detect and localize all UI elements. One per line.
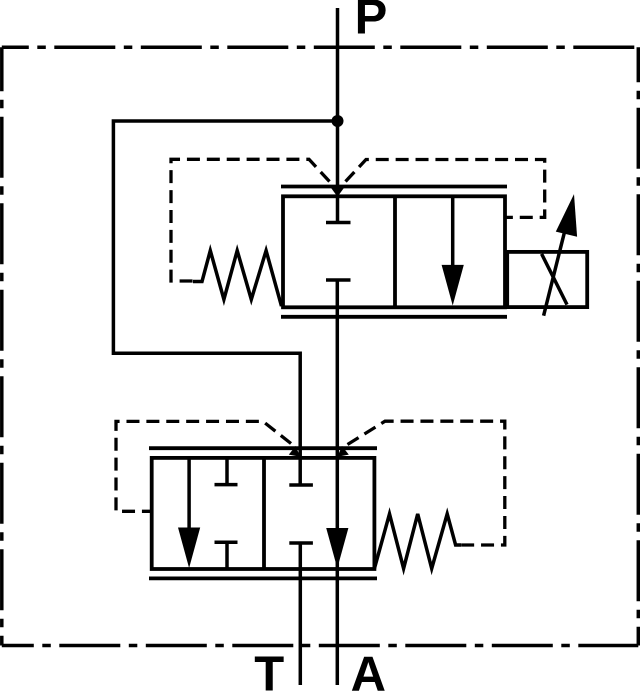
- enclosure boundary bottom edge (dash-dot): [2, 644, 639, 648]
- svg-text:A: A: [351, 648, 386, 691]
- enclosure boundary right edge (dash-dot): [637, 47, 640, 645]
- enclosure boundary left edge (dash-dot): [0, 47, 4, 645]
- valve V1 lower parallel line (proportional mark bottom): [281, 315, 507, 319]
- wire T port line: [299, 543, 303, 685]
- node junction dot: [332, 115, 344, 127]
- valve V2 envelope: [152, 458, 375, 569]
- pilot line valve V1 right (dashed): [346, 160, 545, 218]
- valve V1 flow path arrowhead: [442, 265, 464, 306]
- proportional solenoid box U1: [507, 252, 587, 307]
- valve V2 right cell blocked top T-bar: [289, 483, 313, 487]
- valve V1 blocked port bottom T-bar: [326, 278, 351, 282]
- spring of valve V2: [374, 514, 461, 569]
- pilot line valve V2 left (dashed): [116, 421, 291, 511]
- valve V2 lower parallel line: [149, 577, 377, 581]
- wire main line valve1 to valve2 to port A: [336, 280, 340, 685]
- valve V1 upper parallel line (proportional mark top): [281, 185, 507, 189]
- valve V2 left cell blocked bottom T line: [225, 542, 229, 569]
- adjustment arrow shaft: [544, 220, 568, 316]
- svg-text:P: P: [355, 0, 388, 45]
- valve V2 left cell flow arrow line: [187, 458, 191, 530]
- adjustment arrowhead: [556, 194, 577, 237]
- valve V2 left cell blocked top T-bar: [215, 483, 238, 487]
- valve V2 left cell blocked bottom T-bar: [215, 541, 238, 545]
- wire branch from junction to left: [113, 121, 337, 485]
- valve V1 blocked port top T-bar: [326, 221, 351, 225]
- valve V1 position divider: [393, 196, 397, 307]
- enclosure boundary top edge (dash-dot): [2, 45, 639, 49]
- valve V2 left cell flow arrowhead: [178, 528, 200, 569]
- valve V2 position divider: [262, 458, 266, 569]
- valve V1 pilot arrowhead at top: [330, 187, 344, 197]
- valve V2 right cell flow arrowhead: [326, 528, 348, 568]
- pilot line valve V1 left (dashed): [171, 159, 330, 281]
- wire P supply line: [336, 8, 340, 223]
- solenoid X diagonal stroke: [542, 254, 567, 305]
- valve V2 upper parallel line: [149, 446, 377, 450]
- valve V2 left cell blocked top T line: [225, 458, 229, 485]
- spring of valve V1: [193, 251, 282, 307]
- svg-text:T: T: [254, 648, 284, 691]
- valve V2 pilot arrowhead right: [337, 446, 348, 457]
- valve V1 envelope: [283, 196, 505, 307]
- valve V1 flow path arrow line: [451, 196, 455, 268]
- pilot line valve V2 right (dashed): [348, 421, 505, 545]
- valve V2 pilot arrowhead left: [289, 446, 300, 457]
- valve V2 right cell blocked bottom T-bar: [289, 541, 313, 545]
